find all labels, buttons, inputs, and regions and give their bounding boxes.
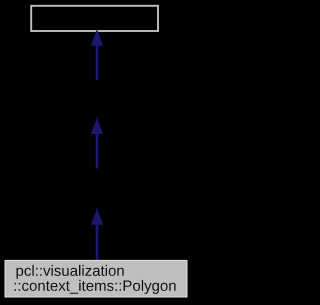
wire: inheritance arrow 3 shaft	[96, 223, 99, 261]
arrow 3 tip stub	[96, 208, 97, 211]
label line 2: ::context_items::Polygon	[15, 280, 176, 294]
node: pcl::visualization::context_items::Polygon (grey filled box)	[5, 260, 187, 297]
node: empty base-class box (grey outline)	[31, 6, 158, 31]
arrow 2 tip stub	[96, 117, 97, 120]
wire: inheritance arrow 2 shaft	[96, 133, 99, 169]
label line 1: pcl::visualization	[17, 265, 124, 279]
wire: inheritance arrow 1 shaft	[96, 44, 99, 80]
inheritance arrow 3 head	[91, 209, 103, 225]
inheritance arrow 2 head	[91, 118, 103, 134]
inheritance diagram: pcl::visualization::context_items::Polygon	[0, 0, 193, 305]
inheritance arrow 1 head	[91, 29, 103, 46]
